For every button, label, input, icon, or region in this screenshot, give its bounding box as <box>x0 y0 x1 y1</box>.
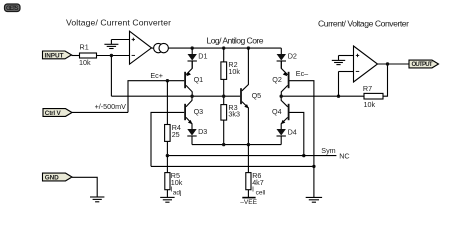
svg-text:Log/ Antilog Core: Log/ Antilog Core <box>207 36 264 46</box>
node summing junction <box>110 54 113 57</box>
resistor R3 <box>221 103 240 145</box>
svg-text:Sym: Sym <box>321 146 335 155</box>
svg-text:Q2: Q2 <box>272 75 282 84</box>
wire GND port to ground <box>72 177 97 197</box>
port GND <box>43 173 73 181</box>
port INPUT <box>43 51 72 59</box>
op-amp U2 <box>339 46 378 96</box>
svg-text:INPUT: INPUT <box>45 52 64 59</box>
transistor Q4 <box>272 96 290 129</box>
wire rail A diode bottoms <box>192 144 281 146</box>
node R3 bottom <box>222 143 225 146</box>
transistor Q5 <box>240 48 261 145</box>
node op1 feedback vertical <box>110 56 112 97</box>
wire Q4 base to rail B <box>290 112 304 155</box>
svg-text:10k: 10k <box>364 100 376 109</box>
svg-text:Q4: Q4 <box>272 107 282 116</box>
svg-text:Current/ Voltage Converter: Current/ Voltage Converter <box>318 19 409 29</box>
node R2/R3 mid <box>222 95 225 98</box>
svg-text:Voltage/ Current Converter: Voltage/ Current Converter <box>66 18 171 28</box>
svg-text:OUTPUT: OUTPUT <box>412 62 433 68</box>
wire op2 output <box>378 63 410 65</box>
wire top rail <box>168 47 281 49</box>
wire rail C <box>151 165 314 167</box>
svg-text:R1: R1 <box>80 42 89 51</box>
wire Ec- from Q2 base down to ground <box>290 81 314 197</box>
node R4/R5 junction <box>166 154 169 157</box>
ground G4 <box>160 197 174 202</box>
transistor Q1 <box>184 61 203 96</box>
node R2 top <box>222 46 225 49</box>
node Q5 collector top <box>247 46 250 49</box>
wire Ec+ to Q1 base <box>128 81 184 113</box>
svg-text:Ctrl V: Ctrl V <box>45 110 62 117</box>
svg-text:D4: D4 <box>288 127 297 136</box>
svg-text:–VEE: –VEE <box>240 199 257 206</box>
node output feedback <box>386 62 389 65</box>
svg-text:25: 25 <box>172 130 180 139</box>
svg-text:3k3: 3k3 <box>228 110 240 119</box>
wire Ctrl V <box>72 111 128 113</box>
svg-text:D1: D1 <box>198 51 207 60</box>
resistor R4 <box>165 81 181 156</box>
transistor Q2 <box>272 61 289 96</box>
port OUTPUT <box>409 60 439 68</box>
svg-text:Q5: Q5 <box>252 91 262 100</box>
ground G1 <box>104 40 118 49</box>
diode D1 <box>188 48 208 68</box>
node Q2 emitter <box>280 95 283 98</box>
wire R1 to node <box>97 55 130 57</box>
wire INPUT to R1 <box>72 55 80 57</box>
node Q4 base on rail B <box>302 154 305 157</box>
svg-text:GND: GND <box>45 175 59 182</box>
transistor Q3 <box>184 96 203 129</box>
svg-text:Q3: Q3 <box>194 107 204 116</box>
svg-text:D3: D3 <box>198 127 207 136</box>
resistor R2 <box>221 48 240 105</box>
node Q1 emitter <box>190 95 193 98</box>
node Q5 emitter / R6 top <box>247 143 250 146</box>
resistor R5 <box>165 156 183 198</box>
node op2 inverting input <box>337 95 340 98</box>
svg-text:NC: NC <box>339 151 349 160</box>
svg-text:+/-500mV: +/-500mV <box>95 102 127 111</box>
ground G2 <box>306 197 322 202</box>
svg-text:10k: 10k <box>79 58 91 67</box>
op-amp U1 <box>130 31 152 64</box>
svg-text:10k: 10k <box>228 67 240 76</box>
wire summing rail right <box>281 95 364 97</box>
svg-text:adj: adj <box>173 189 182 196</box>
ground G3 <box>332 56 345 65</box>
svg-text:Ec–: Ec– <box>296 69 308 78</box>
node D1 top <box>191 46 194 49</box>
svg-text:GETS: GETS <box>6 6 19 12</box>
resistor R6 <box>246 145 266 198</box>
svg-text:D2: D2 <box>288 52 297 61</box>
resistor R7 <box>363 64 388 109</box>
port Ctrl V <box>43 109 72 117</box>
wire Q3 base to ground rail C <box>151 112 184 166</box>
svg-text:cell: cell <box>256 189 266 196</box>
diode D4 <box>277 127 297 144</box>
node R4 tap <box>166 79 169 82</box>
power -VEE <box>240 198 257 206</box>
resistor R1 <box>80 53 97 58</box>
svg-text:Ec+: Ec+ <box>150 71 163 80</box>
wire op1 output <box>152 47 154 49</box>
logo badge <box>5 4 21 12</box>
wire rail B (Sym) <box>167 155 336 157</box>
current source symbol (double circle) <box>154 43 163 52</box>
node rail C to ground <box>312 165 315 168</box>
diode D2 <box>277 48 297 68</box>
svg-text:I: I <box>252 185 254 194</box>
svg-text:R7: R7 <box>363 84 372 93</box>
ground G5 <box>90 197 104 202</box>
diode D3 <box>187 127 207 144</box>
svg-text:Q1: Q1 <box>194 75 204 84</box>
wire summing rail left <box>111 95 240 97</box>
wire op1 + input to ground <box>111 39 129 41</box>
